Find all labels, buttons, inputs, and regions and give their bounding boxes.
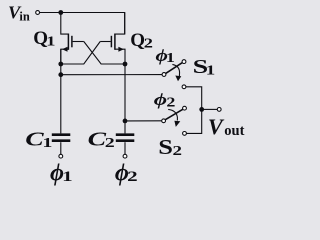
label phi1 (C1 clock) (50, 159, 73, 186)
switch S2 (162, 106, 202, 135)
Q2 source lead (115, 49, 125, 64)
wire node A to switch S1 (61, 74, 162, 76)
Q1 source lead (61, 49, 69, 64)
C1 top plate (52, 133, 71, 136)
svg-text:1: 1 (166, 51, 175, 66)
svg-text:C: C (25, 129, 44, 151)
node Vout junction (199, 107, 204, 112)
wire cross-coupling Q2 gate to node A (61, 42, 100, 65)
Q2 drain lead (115, 13, 125, 35)
svg-text:S: S (158, 135, 173, 159)
C2 top plate (116, 133, 135, 136)
Q2 gate bar (110, 36, 112, 48)
node B junction (Q2 source / cross wire) (123, 62, 128, 67)
S1 output contact (182, 85, 186, 89)
Q1 gate lead (73, 41, 84, 43)
terminal Vout (217, 108, 221, 112)
terminal phi1 clock (59, 154, 63, 158)
capacitor C1 (52, 135, 71, 158)
node A lower junction (wire to S1) (58, 72, 63, 77)
wire Vout tap (202, 108, 218, 110)
Q2 gate lead (100, 41, 111, 43)
label phi1 (switch S1 clock) (156, 46, 175, 66)
S2 motion arrow (168, 109, 177, 120)
label C2 (88, 129, 115, 151)
label Vin (8, 3, 31, 24)
S1 pole contact (162, 73, 166, 77)
svg-text:C: C (88, 129, 107, 151)
label Vout (208, 114, 245, 139)
svg-text:2: 2 (127, 169, 138, 185)
S1 motion arrow (172, 64, 179, 76)
C1 bottom plate (52, 139, 71, 142)
label C1 (25, 129, 52, 151)
node A junction (Q1 source / cross wire) (58, 62, 63, 67)
C2 bottom lead (124, 142, 126, 154)
wire S1 output to bus (186, 87, 202, 110)
svg-text:ϕ: ϕ (154, 90, 168, 109)
svg-text:out: out (224, 123, 244, 139)
Q2 source arrow (118, 47, 123, 52)
svg-text:2: 2 (105, 135, 115, 150)
label S1 (193, 57, 216, 78)
Q1 channel bar (67, 34, 69, 50)
transistor Q1 (61, 13, 84, 65)
label phi2 (switch S2 clock) (154, 90, 176, 111)
label Q1 (33, 28, 56, 49)
svg-text:2: 2 (173, 144, 183, 159)
C2 bottom plate (116, 139, 135, 142)
transistor Q2 (100, 13, 125, 65)
S2 output contact (183, 132, 187, 136)
svg-text:1: 1 (46, 33, 56, 48)
terminal phi2 clock (123, 154, 127, 158)
label Q2 (130, 30, 153, 51)
wire S2 output to bus (186, 109, 201, 133)
svg-text:1: 1 (206, 64, 216, 79)
S2 blade tip contact (183, 106, 187, 110)
wire cross-coupling Q1 gate to node B (84, 42, 125, 65)
label S2 (158, 135, 182, 159)
svg-text:V: V (208, 114, 225, 139)
label phi2 (C2 clock) (115, 159, 138, 186)
Q2 channel bar (114, 34, 116, 50)
svg-text:1: 1 (42, 135, 52, 150)
capacitor C2 (116, 135, 135, 158)
S2 blade (165, 109, 183, 120)
S2 pole contact (162, 119, 166, 123)
svg-text:1: 1 (62, 169, 72, 185)
svg-text:in: in (19, 9, 30, 24)
S1 blade (166, 63, 183, 74)
Q1 gate bar (71, 36, 73, 48)
S1 blade tip contact (182, 60, 186, 64)
Q1 drain lead (61, 13, 69, 35)
wire node B to switch S2 (125, 120, 162, 122)
wire node A vertical down to C1 (60, 49, 62, 133)
svg-text:2: 2 (166, 95, 175, 110)
node B lower junction (wire to S2) (123, 119, 128, 124)
svg-text:2: 2 (144, 36, 154, 51)
Q1 source arrow (62, 47, 67, 52)
switch S1 (162, 60, 202, 110)
wire top rail from Vin to Q2 drain (40, 13, 125, 35)
C1 bottom lead (60, 142, 62, 154)
wire node B vertical down to C2 (124, 64, 126, 133)
terminal Vin (36, 11, 40, 15)
node top rail junction (Q1 drain tap) (58, 10, 63, 15)
